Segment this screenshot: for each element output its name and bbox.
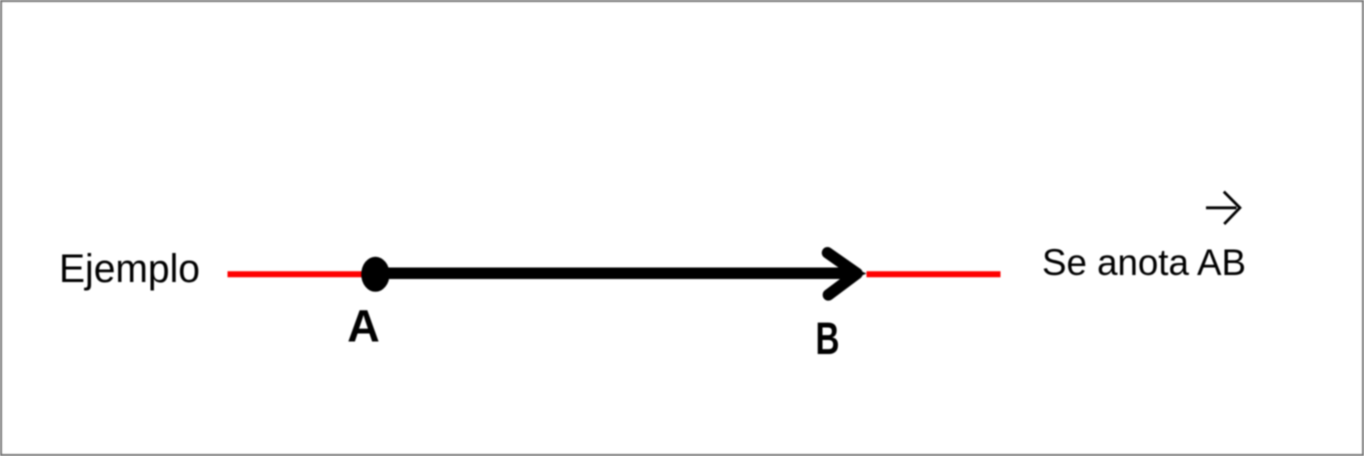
svg-text:Se anota AB: Se anota AB: [1042, 241, 1246, 283]
svg-text:A: A: [347, 300, 380, 351]
svg-text:Ejemplo: Ejemplo: [59, 247, 200, 291]
svg-text:B: B: [816, 313, 840, 364]
